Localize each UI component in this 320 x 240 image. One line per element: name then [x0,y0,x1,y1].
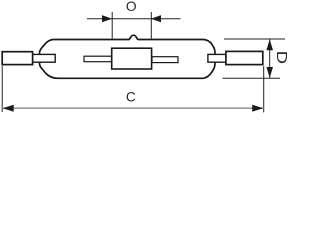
svg-text:O: O [126,0,137,14]
svg-text:D: D [273,51,290,64]
svg-text:C: C [126,90,136,105]
